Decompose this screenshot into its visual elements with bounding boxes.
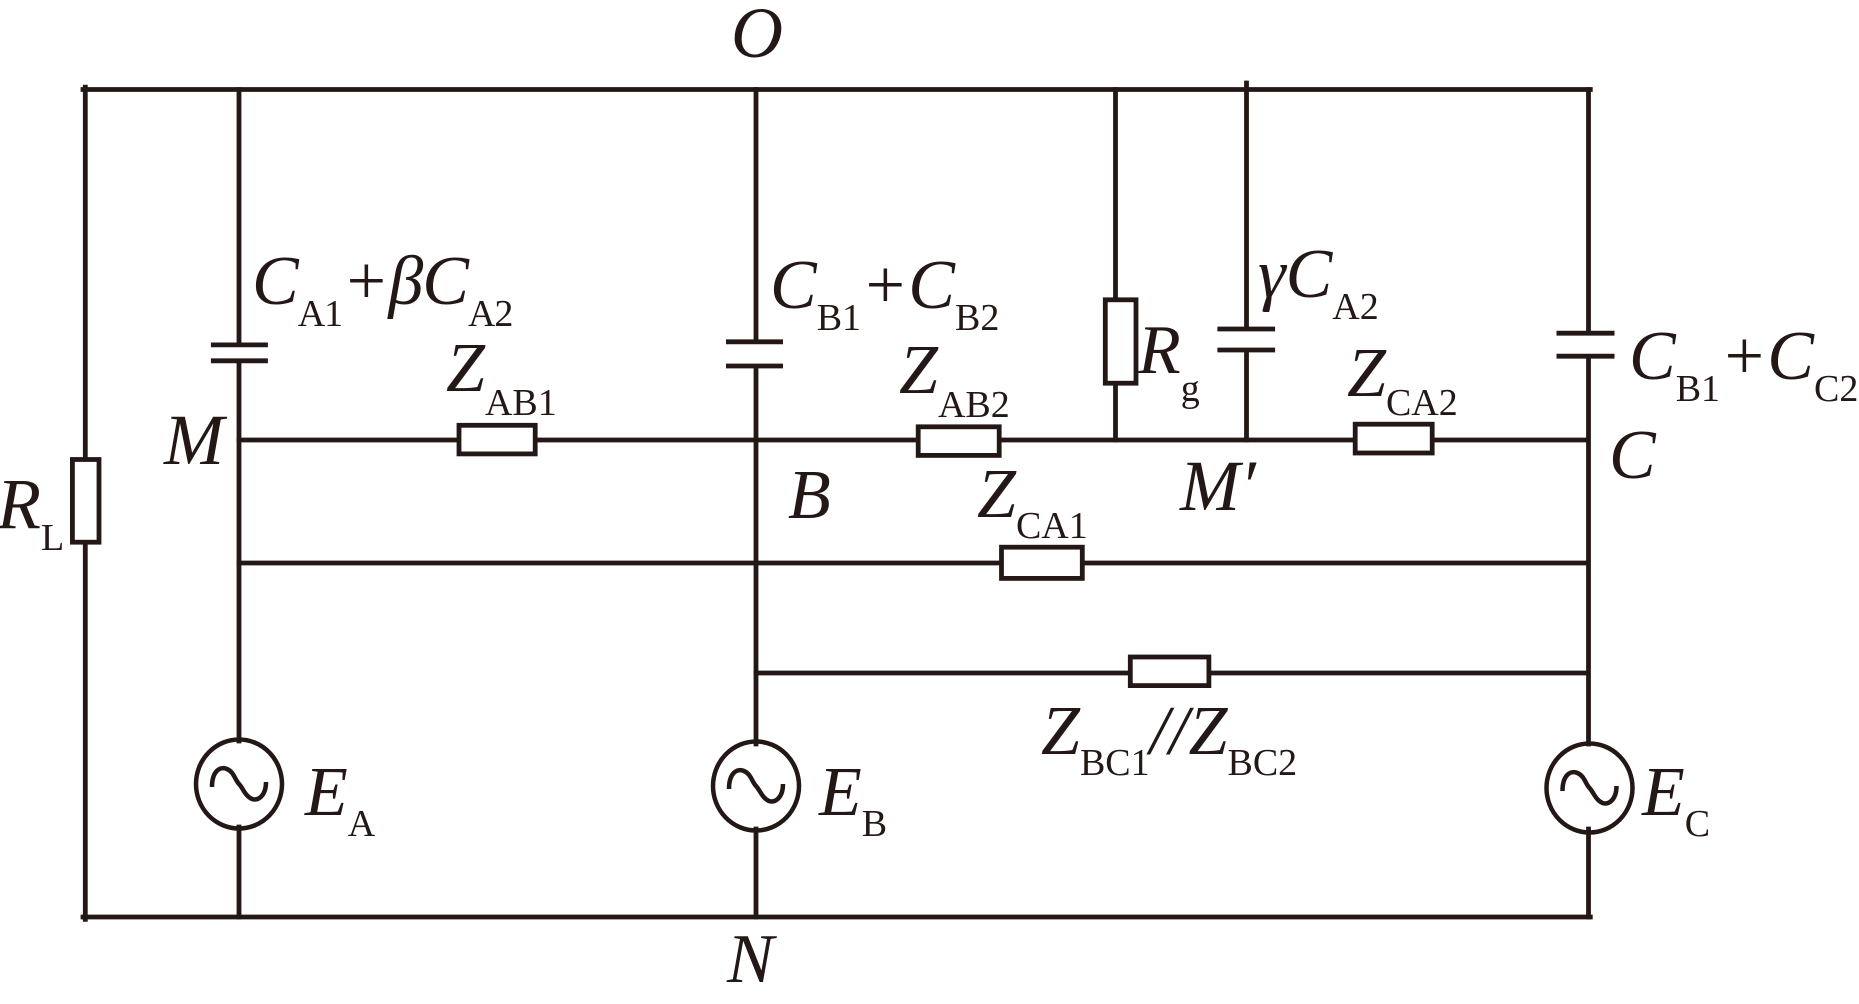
resistor ZBC box (1130, 657, 1209, 686)
source EC circle (1547, 744, 1633, 833)
wire branch A middle (237, 362, 242, 741)
svg-text:B: B (788, 457, 831, 534)
svg-text:N: N (726, 921, 777, 998)
svg-text:M: M (163, 400, 228, 480)
wire right border middle (1586, 358, 1591, 745)
svg-text:O: O (731, 0, 783, 73)
wire branch B upper (754, 90, 759, 341)
capacitor CB1+CB2 plates (726, 339, 783, 344)
wire branch Rg upper (1113, 90, 1118, 302)
wire M line seg1 (239, 438, 460, 443)
wire right border upper (1586, 90, 1591, 332)
wire ZCA1 line seg1 (239, 561, 1002, 566)
resistor ZAB1 box (459, 425, 535, 454)
capacitor gCA2 plates (1217, 327, 1275, 332)
wire branch gammaC upper (1244, 83, 1249, 328)
svg-text:C: C (1609, 417, 1657, 494)
source EB circle (713, 742, 799, 831)
svg-text:M′: M′ (1179, 446, 1257, 526)
wire left border upper (83, 87, 88, 459)
capacitor CB1+CC2 plates (1557, 331, 1615, 336)
resistor ZAB2 box (918, 427, 999, 456)
wire top bus O (83, 87, 1590, 92)
wire M line seg4 (1432, 438, 1589, 443)
resistor ZCA2 box (1355, 424, 1432, 453)
wire branch Rg lower (1113, 383, 1118, 441)
resistor Rg box (1105, 300, 1136, 383)
wire M line seg2 (535, 438, 919, 443)
wire branch B lower (754, 829, 759, 917)
source EA circle (196, 740, 282, 829)
wire M line seg3 (999, 438, 1356, 443)
wire ZBC line seg2 (1209, 671, 1589, 676)
wire right border lower (1586, 829, 1591, 917)
wire branch A upper (237, 90, 242, 344)
wire ZBC line seg1 (756, 671, 1131, 676)
resistor ZCA1 box (1002, 547, 1083, 578)
wire ZCA1 line seg2 (1082, 561, 1589, 566)
wire bottom bus N (83, 915, 1590, 920)
capacitor CA1+bCA2 plates (211, 342, 268, 347)
wire left border lower (83, 542, 88, 919)
wire branch gammaC lower (1244, 352, 1249, 441)
wire branch B middle (754, 367, 759, 744)
resistor RL box (72, 460, 99, 543)
wire branch A lower (237, 827, 242, 917)
